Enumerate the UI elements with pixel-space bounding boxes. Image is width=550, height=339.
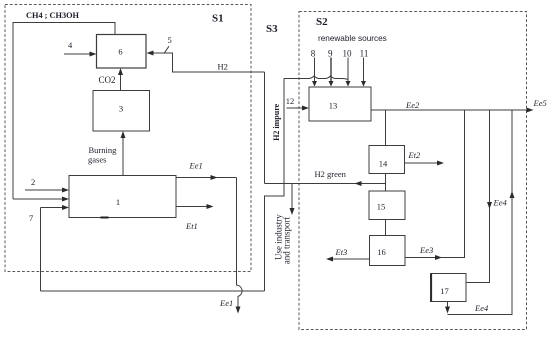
wire Et1 output of box 1	[176, 206, 209, 208]
wire H2 vertical riser	[264, 72, 266, 184]
svg-text:12: 12	[286, 96, 295, 106]
svg-text:1: 1	[116, 197, 120, 207]
wire bus to box 14	[385, 110, 387, 146]
wire CH4 feed horizontal	[13, 23, 115, 200]
svg-text:6: 6	[118, 47, 122, 57]
wire arrow 2 into box 1	[25, 189, 64, 191]
svg-text:S2: S2	[316, 16, 328, 28]
svg-text:gases: gases	[88, 155, 106, 165]
wire arrow 12 into box 13	[287, 107, 305, 109]
svg-text:H2 impure: H2 impure	[272, 103, 281, 140]
svg-text:17: 17	[440, 286, 449, 296]
wire recycle riser	[265, 184, 285, 292]
wire arrow 11	[363, 58, 365, 83]
wire box 17 bottom arrow	[447, 302, 449, 310]
wire use industry drop arrow	[291, 184, 293, 211]
svg-text:Ee5: Ee5	[533, 98, 547, 108]
frame S1 dashed box	[5, 5, 251, 272]
svg-text:Et1: Et1	[185, 221, 198, 231]
svg-text:Ee3: Ee3	[419, 245, 433, 255]
wire CO2 from box 3 to box 6	[120, 72, 122, 91]
box 1	[69, 176, 176, 218]
wire Ee1 drop with hop	[237, 178, 243, 310]
svg-text:3: 3	[119, 104, 123, 114]
box 16	[370, 236, 406, 266]
svg-text:CO2: CO2	[99, 75, 116, 85]
svg-text:Et2: Et2	[408, 150, 422, 160]
svg-text:8: 8	[311, 49, 316, 59]
box 3	[93, 91, 150, 132]
svg-text:Ee4: Ee4	[474, 303, 489, 313]
svg-text:4: 4	[68, 40, 73, 50]
wire arrow 10	[347, 58, 349, 83]
svg-text:H2 green: H2 green	[315, 169, 347, 179]
wire arrow 8	[314, 58, 316, 83]
box 15	[369, 191, 405, 220]
svg-text:S1: S1	[212, 13, 224, 25]
wire Et3 arrow	[331, 258, 370, 260]
box 17	[431, 274, 467, 302]
wire tick for label 5	[164, 46, 169, 53]
svg-text:Ee1: Ee1	[189, 160, 203, 170]
svg-text:16: 16	[377, 247, 386, 257]
box 13	[309, 87, 371, 121]
wire H2 impure vertical	[283, 79, 285, 184]
svg-text:9: 9	[328, 49, 333, 59]
wire hop line over arrows 8 and 9	[284, 76, 348, 80]
wire CH4 into box1 input	[13, 198, 64, 200]
svg-text:Burning: Burning	[89, 145, 118, 155]
svg-text:11: 11	[360, 49, 369, 59]
svg-text:Ee1: Ee1	[219, 298, 233, 308]
svg-text:Ee2: Ee2	[405, 100, 420, 110]
box 14	[369, 146, 405, 174]
svg-text:renewable sources: renewable sources	[318, 34, 387, 43]
wire Ee4 loop back to bus	[448, 110, 513, 315]
wire box14 to box15	[385, 174, 387, 192]
wire 7 vertical	[40, 208, 42, 292]
wire bottom recycle	[41, 290, 265, 292]
svg-text:14: 14	[379, 159, 388, 169]
frame S2 dashed box	[299, 12, 527, 330]
wire H2 green horizontal	[265, 183, 386, 185]
wire Et2 arrow	[405, 162, 440, 164]
svg-text:7: 7	[29, 213, 33, 223]
svg-text:and transport: and transport	[282, 217, 292, 265]
node ink mark on box 1 bottom edge	[101, 217, 109, 219]
svg-text:10: 10	[343, 49, 353, 59]
wire arrow 9	[330, 58, 332, 83]
wire Ee3 to bus	[405, 110, 465, 258]
wire arrow 4 into box 6	[64, 53, 91, 55]
svg-text:Et3: Et3	[335, 247, 348, 257]
box 6	[97, 35, 147, 69]
wire Ee4 from bus down into box 17	[466, 110, 490, 283]
wire burning gases from box 1 to box 3	[122, 135, 124, 176]
svg-text:S3: S3	[266, 23, 278, 35]
svg-text:Ee4: Ee4	[493, 198, 508, 208]
svg-text:5: 5	[168, 35, 172, 45]
svg-text:CH4 ; CH3OH: CH4 ; CH3OH	[26, 11, 80, 20]
wire H2 into box 6 right	[153, 53, 265, 72]
wire box15 to box16	[385, 220, 387, 236]
svg-text:2: 2	[31, 177, 35, 187]
wire input 7 into box 1	[41, 207, 65, 209]
svg-text:H2: H2	[218, 62, 228, 72]
svg-text:15: 15	[377, 202, 386, 212]
wire Ee2 bus to Ee5	[371, 109, 529, 111]
wire Ee1 output of box 1	[176, 177, 237, 179]
svg-text:13: 13	[329, 101, 338, 111]
